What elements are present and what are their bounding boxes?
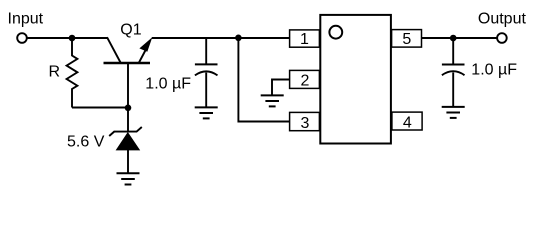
output terminal: [497, 33, 507, 43]
svg-text:2: 2: [301, 72, 310, 89]
capacitor C2 top lead: [452, 38, 454, 65]
capacitor C1 top lead: [205, 38, 207, 65]
node output/C2 junction: [450, 35, 457, 42]
wire zener node to cathode: [127, 108, 129, 132]
input terminal: [17, 33, 27, 43]
svg-text:Q1: Q1: [120, 21, 141, 38]
wire node to IC pin 3: [238, 38, 289, 122]
capacitor C2 top plate: [442, 64, 465, 66]
IC U1 pin 5: [392, 30, 422, 49]
svg-text:Output: Output: [478, 11, 527, 28]
svg-text:1.0 µF: 1.0 µF: [145, 75, 191, 92]
zener diode cathode bar: [109, 127, 142, 136]
ground (pin 2): [261, 95, 284, 106]
svg-text:5.6 V: 5.6 V: [67, 134, 105, 151]
node base/zener junction: [125, 105, 132, 112]
IC U1 pin 3: [290, 112, 320, 132]
node C1/pin3 junction: [235, 35, 242, 42]
wire Q1 emitter to IC pin 1: [152, 37, 290, 39]
svg-text:1: 1: [300, 31, 309, 48]
wire R bottom to zener node: [72, 107, 128, 109]
svg-text:4: 4: [403, 115, 412, 132]
transistor Q1: [104, 37, 153, 108]
capacitor C1 bottom lead: [205, 73, 207, 108]
ground (C2): [442, 107, 465, 118]
svg-text:1.0 µF: 1.0 µF: [471, 62, 517, 79]
IC U1 pin-1 indicator: [329, 26, 342, 39]
wire pin 2 to ground: [272, 80, 290, 95]
wire pin 5 to output: [422, 37, 498, 39]
IC U1 pin 2: [290, 70, 320, 89]
capacitor C2 curved plate: [442, 71, 465, 75]
wire zener to ground: [127, 150, 129, 173]
node input/R junction: [69, 35, 76, 42]
zener diode triangle: [116, 132, 141, 150]
ground (C1): [195, 107, 218, 118]
ground (zener): [117, 173, 140, 184]
wire input to Q1 collector: [27, 37, 107, 39]
svg-text:R: R: [49, 64, 61, 81]
IC U1 body: [320, 15, 391, 144]
resistor R: [67, 38, 78, 108]
capacitor C1 curved plate: [195, 71, 218, 75]
capacitor C1 top plate: [195, 63, 218, 65]
IC U1 pin 1: [290, 30, 320, 48]
svg-text:5: 5: [402, 31, 411, 48]
IC U1 pin 4: [392, 112, 422, 132]
svg-text:3: 3: [301, 115, 310, 132]
svg-text:Input: Input: [8, 10, 44, 27]
capacitor C2 bottom lead: [452, 72, 454, 107]
